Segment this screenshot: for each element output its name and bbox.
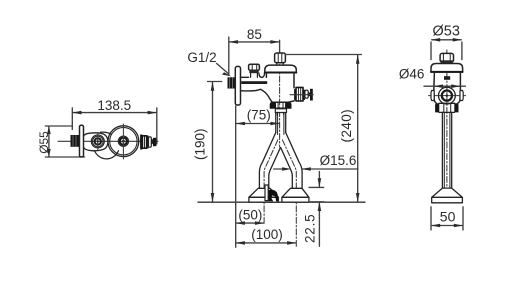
svg-text:85: 85 [247,27,262,42]
dimension (50) line and arrows [236,221,264,225]
top cap dark band [441,60,453,63]
svg-text:Ø15.6: Ø15.6 [320,153,357,168]
outlet coupling [275,109,286,115]
dimension Ø53 extension lines [431,42,462,60]
medium screw circle [91,135,104,148]
connector hex nut (dark bar) [140,135,142,150]
dimension (240) extension line [285,54,361,56]
hex neck [277,63,283,65]
tailpipe inner walls [278,113,284,135]
vacuum breaker hex cap [249,64,260,70]
Y right leg outer wall [286,133,302,189]
main vertical centerline [279,53,281,147]
body slot detail (dark) [444,76,450,80]
floor line [198,201,365,203]
inlet thread nipple (dark) [71,135,80,147]
svg-text:(190): (190) [192,129,207,161]
side port stem [294,89,296,100]
svg-text:Ø55: Ø55 [37,131,51,154]
top cap hex [440,53,453,62]
horizontal centerline [429,95,466,97]
svg-text:138.5: 138.5 [97,98,131,113]
right leg centerline [282,140,296,247]
left bump [431,91,434,101]
dimension (190) extension stub [208,81,222,83]
dome bottom heavy line [265,72,297,74]
side port sleeve [305,90,308,98]
dome bottom heavy line right view [431,71,463,73]
dimension 22.5 stub lines [309,187,324,201]
top hex nut [275,53,286,63]
centerline vertical large circle [122,124,124,159]
dimension Ø15.6 line left arrow [274,167,292,171]
down pipe outer walls [442,112,451,188]
dimension Ø55 line and arrows [47,126,51,157]
port circle [439,87,456,104]
dimension 85 extension line [228,37,230,75]
dimension Ø55 extension lines [45,126,84,157]
dome cap [265,65,297,73]
dome [431,64,463,73]
left leg centerline [264,140,278,224]
dimension 22.5 arrows [318,172,322,247]
body top edge to large circle [101,132,112,134]
svg-text:G1/2: G1/2 [187,50,216,65]
centerline vertical medium circle [97,133,99,151]
dimension Ø46 line and arrows [424,84,465,88]
lower circle arc (body boss behind) [95,150,119,158]
down pipe inner walls [444,112,450,188]
inlet pipe body [241,73,273,103]
vacuum breaker neck [251,73,258,77]
outlet nut middle [439,103,455,112]
vertical centerline [446,50,448,190]
side port centerline [290,94,313,96]
side port hex nut [296,87,303,101]
connector tee end (dark) [153,138,157,146]
outlet nut left ear (dark) [270,102,276,109]
centerline horizontal [58,140,158,142]
body oval around screw [84,133,108,151]
vacuum breaker collar (dark) [249,70,258,73]
inlet pipe dark interior band [241,81,267,84]
body sides [434,72,461,103]
outlet nut right ear (dark) [285,102,291,109]
large cap circle [108,126,139,157]
connector stem nub [151,139,153,144]
Y left leg outer wall [259,133,275,189]
svg-text:Ø46: Ø46 [399,67,425,82]
side port washer (dark) [303,90,305,100]
left flange pipe stub [265,185,268,201]
connector washer (dark bar) [147,136,149,149]
right floor flange [282,188,309,202]
dimension Ø15.6 line right arrow [302,167,358,171]
dimension (190) line and arrows [211,82,215,203]
left extension line for (75)(50)(100) [235,106,237,247]
Y right leg inner wall [281,148,293,189]
svg-text:(240): (240) [339,109,354,143]
svg-text:Ø53: Ø53 [432,24,459,40]
dimension 138.5 extension lines [72,108,157,144]
side port end bar (dark) [310,89,313,101]
connector sleeve [149,137,152,147]
main vertical centerline upper solid segment [279,40,281,53]
left floor flange [249,188,279,202]
dimension (240) line and arrows [356,55,360,203]
left flange dark shading blob [269,190,279,202]
bell flange [432,188,463,203]
svg-text:50: 50 [440,209,456,225]
side port stem 2 [308,93,310,97]
dimension Ø53 line and arrows [431,38,462,42]
outlet nut right cap (dark) [454,103,458,112]
dimension 50 line and arrows [431,224,463,228]
dimension (75) line and arrows [236,122,280,126]
svg-text:(75): (75) [247,107,271,122]
right bump [460,91,463,101]
svg-text:22.5: 22.5 [302,214,317,243]
inlet thread nipple (dark) [228,77,236,88]
svg-text:(50): (50) [238,207,262,222]
leader line G1/2 [217,64,232,77]
dimension (100) line and arrows [236,241,297,245]
outlet nut middle [276,102,286,108]
dimension 85 line and arrows [229,40,280,44]
connector hex nut middle [142,136,146,148]
outlet nut left cap (dark) [435,103,439,112]
tailpipe outer walls [276,113,286,133]
wall flange plate (edge-on) [80,125,84,157]
Y left leg inner wall [269,148,281,189]
body below dome [266,73,294,103]
dimension 50 extension lines [431,207,463,230]
dimension 138.5 line and arrows [72,111,157,115]
svg-text:(100): (100) [251,227,283,242]
wall flange [235,66,240,105]
